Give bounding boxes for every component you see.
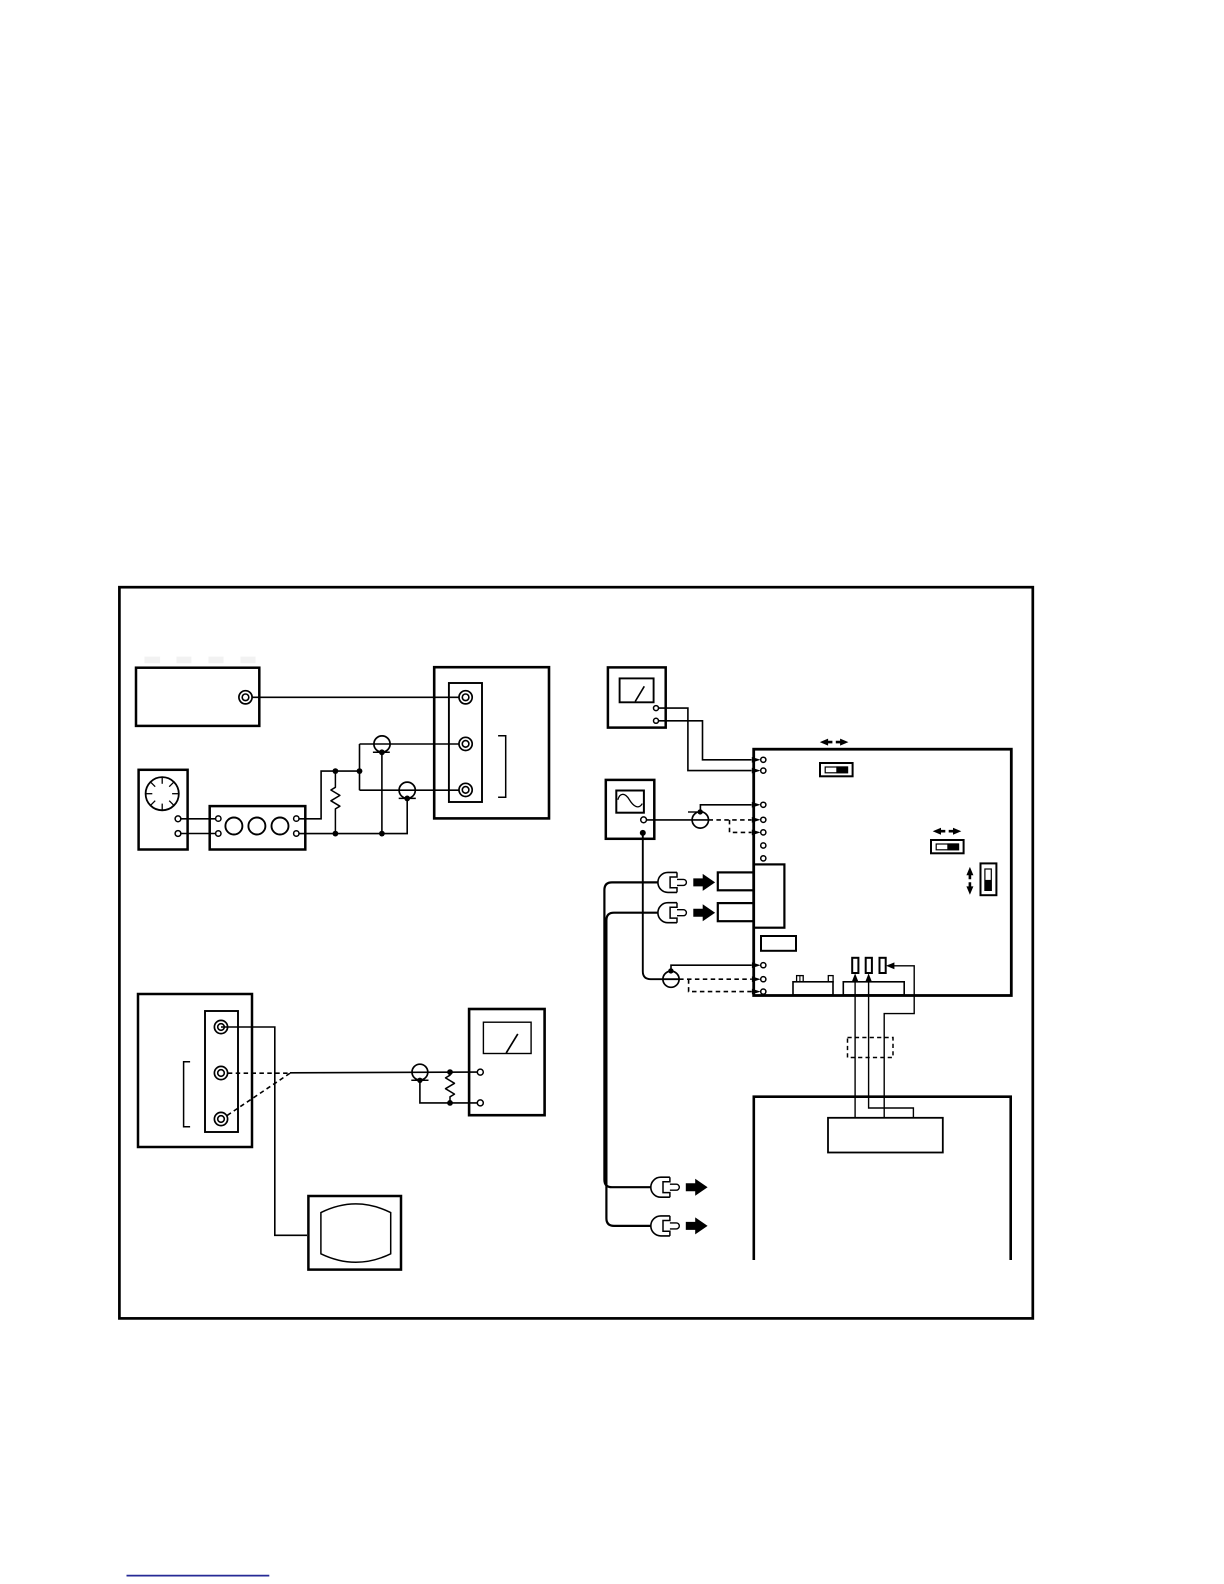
ghost text row [144, 657, 255, 664]
unit terminal 3 [761, 802, 766, 807]
RCA cable 1 [604, 882, 658, 1187]
lower unit inner rect [828, 1118, 943, 1153]
jack J1 [459, 691, 472, 704]
meter M2 display [483, 1022, 531, 1053]
wire lead 3 with left arrow into pin 3 [884, 962, 914, 1117]
connector CN2 on unit bottom [843, 982, 904, 995]
wire P5 tip to unit terminal 3 [700, 805, 751, 812]
junction at resistor R2 top [447, 1069, 453, 1075]
pin 3 [880, 958, 886, 973]
generator output terminals [175, 816, 181, 837]
resistor R2 [446, 1072, 455, 1103]
attenuator knobs [225, 818, 288, 835]
attenuator box B4 [210, 806, 306, 849]
junction at resistor R2 bottom [447, 1100, 453, 1106]
target box for P3 [718, 872, 754, 890]
jack J4 [214, 1020, 227, 1033]
dashed wire J5 [228, 1072, 290, 1074]
junction node B [333, 768, 339, 774]
B9 inner jack strip [205, 1011, 238, 1132]
wire B1 jack to panel jack J1 [252, 696, 459, 698]
player box B9 [138, 994, 252, 1147]
pin 1 [852, 958, 858, 973]
arrow at P8 [686, 1217, 708, 1234]
main unit box B7 [754, 749, 1012, 995]
front panel box B2 [434, 667, 549, 818]
wire generator to attenuator (hot) [180, 818, 215, 820]
generator dial [146, 777, 179, 810]
oscillator output terminal [641, 817, 647, 823]
arrow at P7 [686, 1179, 708, 1196]
plug P2 tip dot [404, 796, 410, 802]
oscillator display [616, 791, 644, 813]
monitor box B10 [308, 1196, 401, 1270]
dashed pass-through box [848, 1038, 894, 1058]
attenuator terminals [216, 816, 299, 836]
wire oscillator to plug P5 [647, 819, 709, 821]
junction node A [357, 768, 363, 774]
unit terminal 1 [761, 757, 766, 762]
plug P5 sleeve bar [688, 811, 697, 813]
ground rail wire [299, 798, 407, 833]
double arrow over switch S2 [933, 828, 962, 835]
jack J3 [459, 783, 472, 796]
wire generator to attenuator (gnd) [180, 833, 215, 835]
connector CN1 on unit bottom [793, 976, 833, 995]
slide switch S1 [820, 763, 853, 776]
plug P5 tip dot [698, 809, 703, 814]
plug P1 tip dot [379, 749, 385, 755]
unit terminal 10 [761, 989, 766, 994]
diagram outer frame [119, 587, 1032, 1318]
jack on B1 [239, 691, 252, 704]
dashed wire J6 diagonal [227, 1073, 290, 1115]
unit terminal 4 [761, 817, 766, 822]
meter M2 needle [506, 1034, 518, 1053]
target box for P4 [718, 903, 754, 921]
dashed wire P6 to unit terminal 10 [689, 979, 752, 991]
unit terminal 7 [761, 856, 766, 861]
monitor CRT screen [321, 1204, 391, 1262]
plug P6 tip dot [668, 968, 673, 973]
resistor R1 [331, 771, 340, 834]
signal generator box B3 [139, 770, 188, 850]
RCA plug P4 [658, 903, 687, 923]
jack J2 [459, 737, 472, 750]
small rect inside unit [761, 936, 796, 951]
plug P2 [399, 782, 415, 798]
wire P9 tip to meter M2 gnd [420, 1080, 478, 1103]
wire node A to jack J2 [360, 743, 460, 745]
unit terminal 2 [761, 768, 766, 773]
arrow at P4 [693, 904, 715, 921]
slide switch S3 vertical [981, 863, 997, 895]
plug P9 sleeve bar [411, 1079, 428, 1081]
B2 inner jack strip [449, 683, 482, 802]
wire M1 t2 to unit terminal 1 [658, 721, 751, 760]
wire P1 tip to ground rail [381, 752, 383, 833]
plug P9 tip dot [417, 1078, 422, 1083]
wire lead 1 with up arrow [852, 973, 858, 1117]
wire oscillator ground cable down to plug P6 [643, 833, 679, 979]
plug P2 sleeve bar [399, 797, 416, 799]
meter M1 needle [635, 686, 644, 701]
instrument box B1 (signal source) [136, 668, 259, 726]
meter M2 terminals [477, 1069, 483, 1106]
arrow at P3 [693, 874, 715, 891]
bracket left of jacks [184, 1062, 191, 1127]
jack J6 [214, 1112, 227, 1125]
RCA plug P7 [651, 1177, 680, 1197]
junction node C [333, 831, 339, 837]
RCA plug P8 [651, 1216, 680, 1236]
oscillator ground dot [640, 830, 646, 836]
slide switch S2 [931, 840, 964, 853]
double arrow beside switch S3 [966, 867, 973, 895]
unit terminal 5 [761, 830, 766, 835]
wire lead 2 with up arrow [866, 973, 914, 1117]
meter M2 box [469, 1009, 544, 1115]
unit terminal 9 [761, 977, 766, 982]
plug P1 sleeve bar [373, 751, 390, 753]
pin 2 [866, 958, 872, 973]
vertical jack rect on unit left edge [754, 864, 785, 927]
RCA plug P3 [658, 872, 687, 892]
meter M1 terminals [654, 706, 659, 724]
plug P6 [663, 971, 679, 987]
wire node A to jack J3 [360, 789, 460, 791]
junction node D [379, 831, 385, 837]
wire M1 t1 to unit terminal 2 [658, 708, 751, 771]
plug P5 [692, 812, 708, 828]
oscillator sine wave [618, 794, 643, 807]
dashed wire P6 to unit terminal 9 [679, 978, 752, 980]
jack J5 [214, 1066, 227, 1079]
plug P1 [374, 736, 390, 752]
oscillator box B6 [606, 780, 655, 839]
wire attenuator out to node A [299, 771, 359, 819]
wire node A vertical [359, 744, 361, 790]
wire J4 to monitor [221, 1027, 307, 1235]
RCA cable 2 [606, 913, 658, 1226]
unit terminal 6 [761, 843, 766, 848]
meter M1 box [608, 667, 666, 727]
lower unit box B8 (open bottom) [754, 1097, 1011, 1260]
meter M1 display [620, 678, 654, 702]
dashed wire P5 to unit terminal 4 [709, 819, 752, 821]
bracket right of jacks [498, 736, 506, 798]
unit terminal 8 [761, 963, 766, 968]
double arrow over switch S1 [820, 739, 849, 746]
dashed wire P5 to unit terminal 5 [730, 820, 752, 833]
wire P6 tip to unit terminal 8 [671, 965, 752, 971]
footer rule [127, 1575, 270, 1577]
plug P9 [412, 1064, 428, 1080]
wire to plug P9 [290, 1071, 478, 1074]
